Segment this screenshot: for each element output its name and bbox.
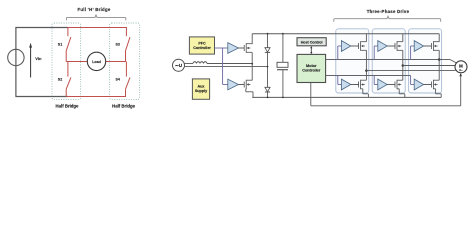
svg-text:Controller: Controller <box>302 68 321 72</box>
AC source circle <box>173 59 185 71</box>
svg-text:Supply: Supply <box>195 89 208 93</box>
wire: bottom rail dark segment <box>15 96 68 98</box>
gate driver phase 1 high <box>341 41 350 52</box>
wire: phase 1 line to motor <box>366 69 456 72</box>
svg-text:Full ‘H’ Bridge: Full ‘H’ Bridge <box>77 7 110 12</box>
gate driver phase 2 low <box>378 79 387 90</box>
gate driver phase 3 high <box>414 41 423 52</box>
phase leg box 3 <box>409 29 442 93</box>
wire: phase 1 high drain to +rail <box>365 34 367 42</box>
wire: gate bus bottom (MC to drivers) <box>326 75 411 77</box>
wire: AC line upper to inductor <box>184 63 193 65</box>
gate driver phase 1 low <box>341 79 350 90</box>
MOSFET phase 2 low <box>387 80 403 89</box>
node: phase 1 output <box>365 69 368 72</box>
wire: phase 1 low source to -rail <box>363 89 369 98</box>
diode D2 <box>265 87 270 92</box>
label: Three-Phase Drive title <box>367 9 410 14</box>
wire: gate bus top (MC to drivers) <box>326 59 440 61</box>
MOSFET phase 3 high <box>424 41 440 50</box>
wire: phase 3 high drain to +rail <box>438 34 440 42</box>
svg-text:Half Bridge: Half Bridge <box>112 104 136 109</box>
svg-text:Controller: Controller <box>193 46 211 50</box>
MOSFET phase 1 low <box>351 80 367 89</box>
wire: phase 2 high source to node <box>402 50 404 65</box>
gate driver U2 (PFC low) <box>228 79 239 90</box>
wire: bottom rail red segment <box>66 96 126 98</box>
MOSFET Q2 (PFC low) <box>239 80 253 89</box>
node: diode column taps <box>267 33 269 99</box>
aux supply box <box>192 79 209 99</box>
label S4 <box>115 78 119 82</box>
dotted half-bridge box left <box>52 23 81 100</box>
label S2 <box>58 78 62 82</box>
label: Full H Bridge title <box>77 7 110 12</box>
wire: gate riser top phase 3 <box>411 46 415 60</box>
node: PFC FET midpoint <box>251 63 253 65</box>
switch S4 <box>126 62 131 97</box>
wire: AC upper line to FET midpoint <box>207 63 252 65</box>
node: phase 3 output <box>438 58 441 61</box>
dotted half-bridge box right <box>110 23 140 100</box>
wire: phase 1 low drain to node <box>365 71 367 81</box>
wire: load crossbar right <box>106 61 126 63</box>
node: phase 2 output <box>402 64 405 67</box>
wire: PFC gate control <box>215 48 228 85</box>
load circle <box>87 52 105 70</box>
wire: Q1 source to midpoint <box>251 53 253 64</box>
svg-text:S2: S2 <box>58 78 62 82</box>
svg-text:S4: S4 <box>115 78 119 82</box>
brace over full H bridge <box>66 15 125 21</box>
wire: Q2 drain to midpoint <box>251 64 253 80</box>
wire: top rail red segment <box>67 27 127 29</box>
wire: top rail dark segment <box>15 27 68 29</box>
wire: phase 3 low drain to node <box>438 60 440 81</box>
svg-text:Half Bridge: Half Bridge <box>56 104 80 109</box>
wire: phase 1 high source to node <box>365 50 367 70</box>
phase leg box 1 <box>336 29 369 93</box>
wire: gate riser top phase 1 <box>338 46 342 60</box>
wire: load crossbar left <box>66 61 87 63</box>
node: capacitor taps <box>282 33 284 99</box>
arrow Vin <box>29 43 32 78</box>
wire: phase 3 high source to node <box>438 50 440 59</box>
wire: phase 2 low source to -rail <box>399 89 405 98</box>
wire: left vertical of outer loop <box>15 28 17 97</box>
wire: gate drop bottom phase 3 <box>411 76 415 85</box>
svg-text:Load: Load <box>92 60 101 64</box>
svg-text:M: M <box>459 63 463 68</box>
wire: motor feedback to controller <box>311 73 462 106</box>
wire: phase 2 low drain to node <box>402 66 404 81</box>
wire: diode column <box>267 34 269 98</box>
switch S2 <box>66 62 71 97</box>
svg-text:Aux: Aux <box>198 85 206 89</box>
label Vin <box>35 56 42 61</box>
svg-text:Vin: Vin <box>35 56 42 61</box>
motor controller box <box>297 54 326 82</box>
wire: bottom DC rail <box>252 96 441 98</box>
label Half Bridge right <box>112 104 136 109</box>
motor M <box>455 61 467 73</box>
MOSFET Q1 (PFC high) <box>239 43 253 52</box>
gate driver U1 (PFC high) <box>228 43 239 54</box>
wire: Q1 drain to +rail <box>251 34 253 44</box>
wire: phase 3 low source to -rail <box>436 89 442 98</box>
wire: AC lower line to diode midpoint <box>184 66 268 68</box>
wire: Q2 source to -rail <box>246 89 253 98</box>
MOSFET phase 3 low <box>424 80 440 89</box>
svg-text:∼U: ∼U <box>175 63 182 68</box>
svg-text:Motor: Motor <box>306 64 317 68</box>
host control box <box>297 38 326 46</box>
wire: top DC rail <box>252 33 439 35</box>
brace over three-phase drive <box>334 16 441 22</box>
diode D1 <box>265 48 270 53</box>
wire: phase 2 line to motor <box>403 65 455 67</box>
wire: phase 3 line to motor <box>439 60 456 63</box>
label Half Bridge left <box>56 104 80 109</box>
wire: gate drop bottom phase 2 <box>374 76 378 85</box>
svg-text:S3: S3 <box>115 43 119 47</box>
wire: phase 2 high drain to +rail <box>402 34 404 42</box>
phase leg box 2 <box>372 29 405 93</box>
svg-text:Three-Phase Drive: Three-Phase Drive <box>367 9 410 14</box>
label S1 <box>58 43 62 47</box>
switch S1 <box>66 28 71 62</box>
svg-text:PFC: PFC <box>198 42 206 46</box>
svg-text:S1: S1 <box>58 43 62 47</box>
switch S3 <box>126 28 131 62</box>
arrow: host control to motor controller <box>310 46 312 54</box>
wire: gate drop bottom phase 1 <box>338 76 342 85</box>
MOSFET phase 1 high <box>351 41 367 50</box>
PFC controller box <box>189 37 214 54</box>
capacitor C1 bus <box>277 34 288 98</box>
inductor L1 <box>193 62 207 64</box>
gate driver phase 3 low <box>414 79 423 90</box>
gate driver phase 2 high <box>378 41 387 52</box>
wire: gate riser top phase 2 <box>374 46 378 60</box>
label S3 <box>115 43 119 47</box>
svg-text:Host Control: Host Control <box>301 40 323 44</box>
voltage source Vin circle <box>8 49 24 65</box>
MOSFET phase 2 high <box>387 41 403 50</box>
